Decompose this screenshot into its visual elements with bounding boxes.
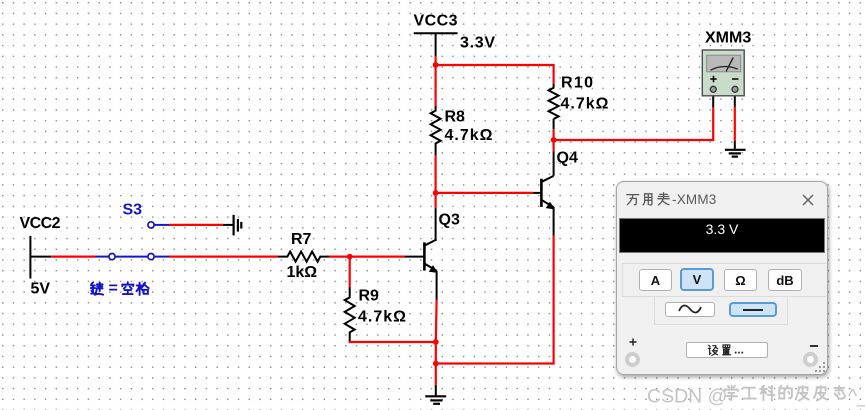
minus terminal marker [810,345,818,347]
wire XMM3 right terminal to ground [734,107,736,141]
svg-text:R10: R10 [561,75,593,92]
group box (waveform buttons) [654,296,788,325]
power VCC2 [20,215,61,298]
wire VCC3 to node A [435,56,437,65]
resistor R9 [345,257,406,341]
wire node B to XMM3 left terminal [554,107,714,140]
node B junction (R10/Q4 collector/meter) [551,137,557,143]
power VCC3 [414,13,496,57]
svg-text:4.7kΩ: 4.7kΩ [561,96,609,113]
button A [639,269,672,291]
wire Q4 collector [552,140,554,151]
wire Q3 collector [435,193,437,208]
svg-text:R8: R8 [445,109,466,126]
plus terminal socket [625,352,640,367]
multimeter instrument panel XMM3 [616,181,828,375]
wire R9 bottom to node D [350,341,436,342]
watermark CSDN [647,383,865,410]
wire node A to R10 top [436,65,554,84]
svg-text:S3: S3 [123,202,143,219]
close button [802,194,814,206]
svg-text:4.7kΩ: 4.7kΩ [358,309,406,326]
button AC [665,302,715,317]
multimeter icon XMM3 [702,29,751,96]
node D junction (R9 bottom wire) [433,339,439,345]
wire node D to node E to ground [435,342,437,386]
svg-text:VCC2: VCC2 [20,215,61,232]
node F junction (R7/R9) [347,254,353,260]
wire Q4 emitter down and left to node E [436,236,554,364]
wire XMM3 right terminal lead [734,92,736,107]
node E junction (emitter bus) [433,361,439,367]
wire switch to R7 [169,256,278,258]
svg-text:XMM3: XMM3 [705,29,751,46]
resistor R8 [431,65,493,193]
node C junction (R8 bottom / Q3 collector / Q4 base) [433,190,439,196]
resistor R10 [549,75,609,141]
svg-text:Q3: Q3 [439,212,460,229]
svg-text:1kΩ: 1kΩ [287,264,318,281]
svg-text:=: = [109,280,118,297]
minus terminal socket [803,352,818,367]
button V (selected) [680,268,714,291]
wire XMM3 left terminal lead [712,92,714,107]
wire node C to Q4 base [436,192,533,194]
svg-text:Q4: Q4 [557,150,578,167]
node A junction [433,62,439,68]
wire Q3 emitter down [435,300,438,343]
display readout [619,218,825,253]
svg-text:3.3V: 3.3V [460,35,495,52]
resistor R7 [278,231,330,281]
svg-text:4.7kΩ: 4.7kΩ [445,127,493,144]
ground (main) [425,396,446,404]
wire VCC2 to switch [51,256,95,258]
button ohm [724,269,757,291]
transistor Q4 [541,150,578,236]
resize grip [814,361,826,373]
button DC (selected) [729,302,777,317]
ground (S3, rotated) [234,215,242,236]
switch S3 [109,202,169,260]
svg-text:R7: R7 [291,231,312,248]
group box (mode buttons) [622,263,826,297]
svg-text:...: ... [734,343,744,357]
svg-text:5V: 5V [31,281,51,298]
button dB [768,269,802,291]
ground (XMM3) [725,150,746,157]
settings button 设置... [686,342,768,358]
svg-text:VCC3: VCC3 [414,13,458,30]
panel title 万用表-XMM3 [626,191,717,207]
wire switch upper throw to ground [169,224,223,226]
transistor Q3 [424,212,460,300]
label 键 = 空格 [91,280,149,297]
wire R7 to Q3 base [329,256,404,258]
plus terminal marker [629,338,637,346]
svg-text:R9: R9 [359,288,380,305]
